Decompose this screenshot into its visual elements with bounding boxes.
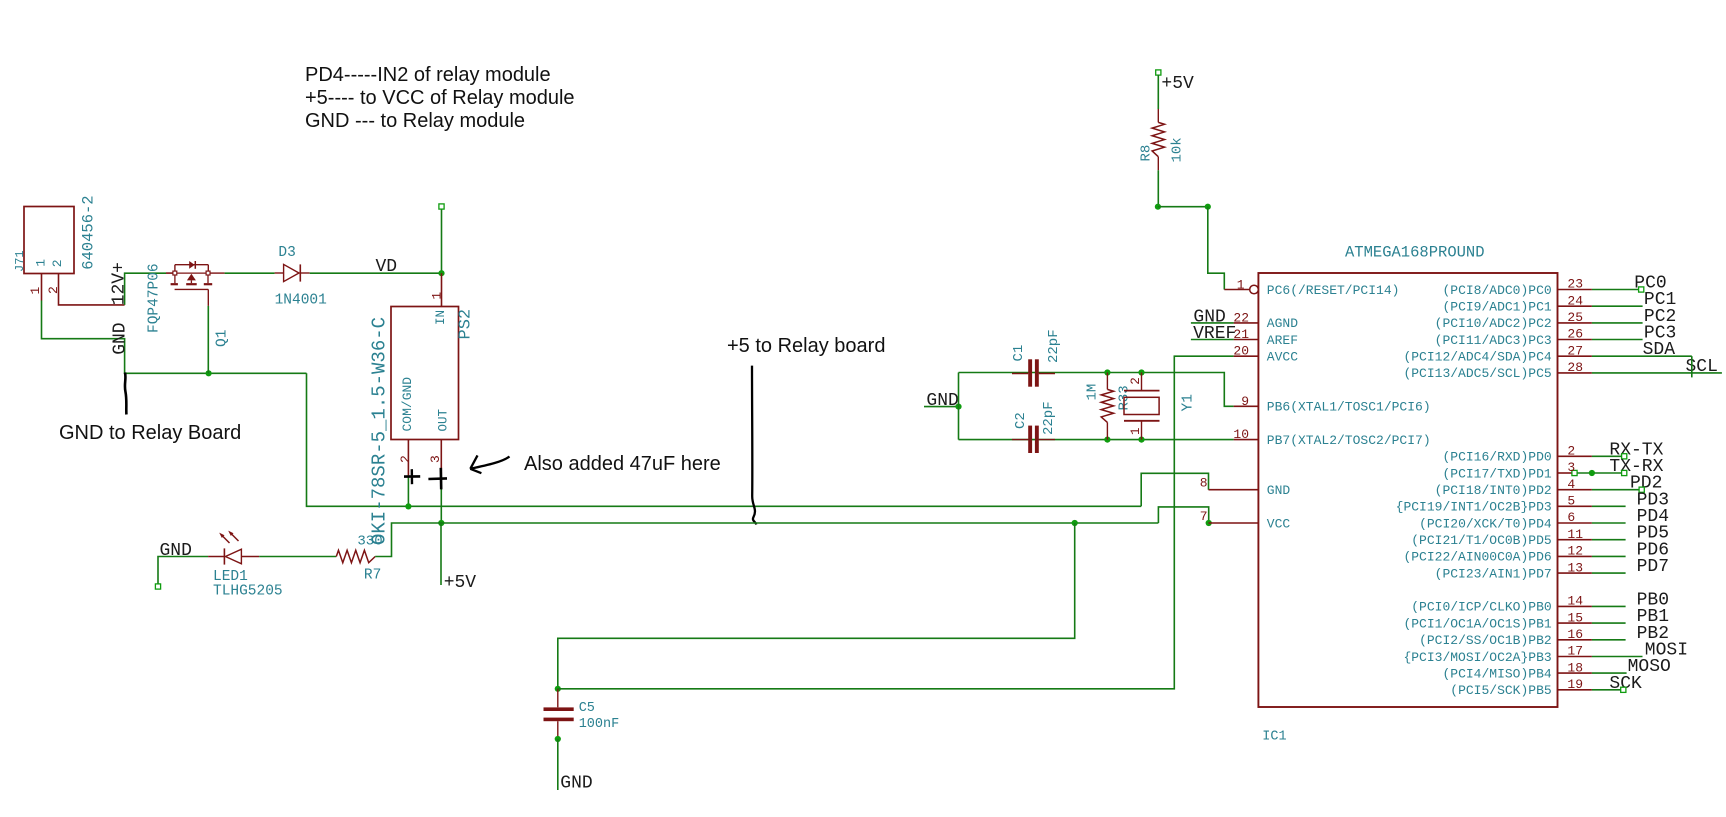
pin number 1 (PS2): [430, 292, 445, 300]
connector J71 pin 2 stub: [58, 274, 60, 301]
regulator PS2 pin 2 stub: [407, 440, 409, 476]
IC1 pin 3 TX-RX: [1442, 457, 1663, 481]
svg-text:13: 13: [1567, 560, 1583, 575]
wire VD stub up: [441, 209, 443, 273]
label VREF: [1193, 324, 1236, 344]
label PS2: [457, 309, 476, 340]
svg-text:IN: IN: [434, 310, 448, 325]
note GND to Relay Board: [59, 422, 241, 445]
node junction Y1 top: [1138, 369, 1144, 375]
svg-text:VREF: VREF: [1193, 324, 1236, 344]
terminal square GND LED: [155, 584, 160, 589]
svg-text:12: 12: [1567, 544, 1583, 559]
resistor R7: [336, 550, 375, 562]
svg-text:SCL: SCL: [1686, 357, 1718, 377]
IC1 pin 22 AGND: [1233, 310, 1298, 331]
node junction Q1 gate / GND wire: [206, 370, 212, 376]
label TLHG5205: [213, 584, 283, 600]
node junction below R8: [1155, 204, 1161, 210]
IC1 pin 12 PD6: [1403, 540, 1669, 564]
svg-text:20: 20: [1233, 344, 1249, 359]
label R8: [1139, 145, 1155, 162]
label GND (bottom): [560, 773, 592, 793]
svg-text:(PCI9/ADC1)PC1: (PCI9/ADC1)PC1: [1442, 300, 1551, 315]
svg-text:(PCI13/ADC5/SCL)PC5: (PCI13/ADC5/SCL)PC5: [1403, 366, 1551, 381]
svg-text:10: 10: [1233, 427, 1249, 442]
svg-text:2: 2: [398, 455, 413, 463]
svg-text:100nF: 100nF: [579, 717, 620, 732]
regulator PS2 body: [391, 307, 459, 440]
svg-text:R7: R7: [364, 567, 381, 583]
svg-text:C5: C5: [579, 701, 595, 716]
wire GND stub at LED: [158, 557, 208, 585]
IC1 pin 13 PD7: [1435, 557, 1669, 581]
pin name OUT: [437, 408, 451, 431]
label GND (crystal): [926, 391, 958, 411]
label LED1: [213, 569, 248, 585]
wire Q1 gate to GND junction: [207, 306, 209, 373]
svg-text:COM/GND: COM/GND: [400, 377, 415, 432]
wire GND rail jog to pin 8: [1141, 473, 1208, 506]
wire +5V label stub: [440, 523, 442, 585]
svg-text:PB6(XTAL1/TOSC1/PCI6): PB6(XTAL1/TOSC1/PCI6): [1267, 400, 1431, 415]
terminal square +5V top: [1156, 70, 1161, 75]
svg-text:23: 23: [1567, 277, 1583, 292]
node junction VD / PS2 IN: [438, 270, 444, 276]
svg-text:D3: D3: [278, 245, 295, 261]
label 330: [357, 533, 382, 549]
label D3: [278, 245, 295, 261]
IC1 pin 21 AREF: [1233, 327, 1298, 348]
crystal Y1: [1124, 373, 1160, 440]
pin number 2 (Y1): [1129, 377, 1143, 385]
svg-text:AREF: AREF: [1267, 333, 1298, 348]
transistor Q1 (P-MOSFET): [166, 261, 225, 306]
svg-text:(PCI10/ADC2)PC2: (PCI10/ADC2)PC2: [1435, 316, 1552, 331]
wire XTAL1 top rail: [959, 373, 1234, 407]
svg-text:6: 6: [1567, 510, 1575, 525]
svg-text:GND: GND: [926, 391, 958, 411]
pin name 2 (J71): [50, 259, 65, 267]
label Y1: [1181, 394, 1197, 411]
svg-text:GND: GND: [1267, 483, 1291, 498]
svg-text:Y1: Y1: [1181, 394, 1197, 411]
svg-text:C1: C1: [1011, 345, 1027, 362]
svg-text:IC1: IC1: [1262, 730, 1286, 745]
IC1 pin 17 MOSI: [1403, 641, 1688, 665]
wire +5V rail to C5 loop: [558, 523, 1075, 689]
svg-text:330: 330: [357, 533, 382, 549]
IC1 pin 11 PD5: [1411, 524, 1669, 548]
label C2: [1013, 412, 1029, 429]
svg-text:3: 3: [1567, 460, 1575, 475]
annotation hand-drawn 47uF capacitor marks: [404, 468, 447, 490]
wire 12V+ from J71 pin 2: [59, 273, 167, 305]
svg-text:R8: R8: [1139, 145, 1155, 162]
svg-text:J71: J71: [13, 250, 27, 272]
svg-text:OKI-78SR-5_1.5-W36-C: OKI-78SR-5_1.5-W36-C: [369, 317, 391, 545]
svg-text:(PCI4/MISO)PB4: (PCI4/MISO)PB4: [1442, 666, 1551, 681]
svg-text:3: 3: [428, 455, 443, 463]
svg-text:8: 8: [1200, 476, 1208, 491]
svg-text:PB7(XTAL2/TOSC2/PCI7): PB7(XTAL2/TOSC2/PCI7): [1267, 433, 1431, 448]
svg-text:25: 25: [1567, 310, 1583, 325]
svg-text:1: 1: [34, 259, 49, 267]
svg-text:(PCI12/ADC4/SDA)PC4: (PCI12/ADC4/SDA)PC4: [1403, 350, 1551, 365]
resistor R8: [1152, 109, 1164, 170]
annotation hand-drawn arrow: [470, 455, 509, 473]
svg-text:10k: 10k: [1170, 137, 1186, 162]
svg-text:16: 16: [1567, 627, 1583, 642]
note Also added 47uF here: [524, 453, 721, 476]
pin name IN: [434, 310, 448, 325]
svg-text:22pF: 22pF: [1046, 329, 1062, 363]
annotation hand-drawn +5 pointer line: [752, 366, 756, 525]
svg-text:640456-2: 640456-2: [80, 195, 98, 269]
label IC1: [1262, 730, 1286, 745]
svg-text:(PCI22/AIN00C0A)PD6: (PCI22/AIN00C0A)PD6: [1403, 550, 1551, 565]
node junction reset corner: [1205, 204, 1211, 210]
IC1 pin 24 PC1: [1442, 290, 1676, 314]
wire PS2 pin 3 to +5V rail: [440, 475, 442, 523]
IC1 pin 1 PC6/RESET: [1224, 278, 1399, 298]
wire reset to pin 1: [1208, 207, 1225, 290]
IC1 pin 15 PB1: [1403, 607, 1669, 631]
svg-text:PS2: PS2: [457, 309, 476, 340]
node junction C5 top: [555, 686, 561, 692]
IC1 pin 19 SCK: [1450, 674, 1642, 698]
svg-text:VCC: VCC: [1267, 516, 1291, 531]
resistor R33: [1101, 373, 1113, 440]
svg-text:1: 1: [1129, 427, 1143, 435]
annotation hand-drawn GND squiggle: [125, 373, 126, 415]
label ATMEGA168PROUND: [1345, 244, 1485, 262]
svg-text:1: 1: [430, 292, 445, 300]
svg-text:+5V: +5V: [1161, 74, 1194, 94]
svg-text:TLHG5205: TLHG5205: [213, 584, 283, 600]
node junction PS2 OUT on +5V rail: [438, 520, 444, 526]
wire C5 to GND: [557, 739, 559, 790]
label 12V+: [110, 262, 130, 305]
svg-text:AVCC: AVCC: [1267, 350, 1298, 365]
svg-text:(PCI17/TXD)PD1: (PCI17/TXD)PD1: [1442, 466, 1551, 481]
pin number 1 (J71): [28, 287, 43, 295]
label J71: [13, 250, 27, 272]
label R7: [364, 567, 381, 583]
regulator PS2 pin 3 stub: [440, 440, 442, 476]
svg-text:9: 9: [1241, 394, 1249, 409]
svg-text:ATMEGA168PROUND: ATMEGA168PROUND: [1345, 244, 1485, 262]
svg-text:12V+: 12V+: [110, 262, 130, 305]
svg-text:17: 17: [1567, 644, 1583, 659]
svg-text:VD: VD: [376, 257, 398, 277]
svg-text:(PCI2/SS/OC1B)PB2: (PCI2/SS/OC1B)PB2: [1419, 633, 1552, 648]
label GND (pin22): [1193, 307, 1225, 327]
pin name COM/GND: [400, 377, 415, 432]
svg-text:Q1: Q1: [215, 330, 231, 347]
svg-text:1N4001: 1N4001: [275, 292, 327, 308]
node junction Y1 bottom: [1138, 437, 1144, 443]
svg-text:19: 19: [1567, 677, 1583, 692]
label C1: [1011, 345, 1027, 362]
svg-text:1: 1: [28, 287, 43, 295]
label 1M: [1085, 384, 1101, 401]
wire GND from J71 pin 1: [42, 301, 307, 374]
pin number 2 (J71): [46, 286, 61, 294]
svg-text:(PCI11/ADC3)PC3: (PCI11/ADC3)PC3: [1435, 333, 1552, 348]
wire crystal left leg: [958, 373, 960, 440]
svg-text:27: 27: [1567, 343, 1583, 358]
wire AVCC net: [558, 356, 1234, 689]
label 10k: [1170, 137, 1186, 162]
svg-text:28: 28: [1567, 360, 1583, 375]
label R33: [1117, 385, 1133, 410]
node junction C5 bottom: [555, 736, 561, 742]
svg-text:GND: GND: [560, 773, 592, 793]
svg-text:LED1: LED1: [213, 569, 248, 585]
wire VD net: [310, 272, 442, 274]
IC1 pin 9 PB6: [1234, 394, 1431, 415]
IC1 pin 28 SCL: [1403, 357, 1721, 381]
node junction PS2 COM on GND rail: [405, 503, 411, 509]
label Q1: [215, 330, 231, 347]
IC1 pin 20 AVCC: [1233, 344, 1298, 365]
svg-text:2: 2: [1129, 377, 1143, 385]
svg-text:(PCI20/XCK/T0)PD4: (PCI20/XCK/T0)PD4: [1419, 516, 1552, 531]
wire SDA corner: [1691, 356, 1693, 377]
svg-text:15: 15: [1567, 610, 1583, 625]
IC1 pin 14 PB0: [1411, 590, 1669, 614]
capacitor C2: [1012, 426, 1055, 453]
IC1 pin 5 PD3: [1396, 490, 1669, 514]
IC1 pin 4 PD2: [1435, 474, 1663, 498]
svg-text:SDA: SDA: [1643, 340, 1676, 360]
svg-text:FQP47P06: FQP47P06: [147, 263, 163, 333]
svg-text:14: 14: [1567, 594, 1583, 609]
svg-text:2: 2: [50, 259, 65, 267]
IC1 pin 18 MOSO: [1442, 657, 1670, 681]
svg-text:{PCI19/INT1/OC2B}PD3: {PCI19/INT1/OC2B}PD3: [1396, 500, 1552, 515]
wire XTAL2 bottom rail: [959, 439, 1234, 441]
capacitor C1: [1012, 359, 1055, 386]
wire GND stub at crystal: [924, 406, 959, 408]
IC1 pin 6 PD4: [1419, 507, 1669, 531]
wire reset node across: [1158, 206, 1208, 208]
IC1 pin 26 PC3: [1435, 324, 1677, 348]
svg-text:OUT: OUT: [437, 408, 451, 431]
capacitor C5: [544, 689, 574, 739]
svg-text:4: 4: [1567, 477, 1575, 492]
svg-text:(PCI1/OC1A/OC1S)PB1: (PCI1/OC1A/OC1S)PB1: [1403, 616, 1551, 631]
wire PS2 pin 2 to GND rail: [407, 475, 409, 506]
label GND (LED): [160, 541, 192, 561]
label +5V (top): [1161, 74, 1194, 94]
regulator PS2 pin 1 stub: [441, 273, 443, 306]
wire R8 to reset node: [1157, 170, 1159, 206]
connector J71 pin 1 stub: [41, 274, 43, 301]
svg-text:2: 2: [1567, 444, 1575, 459]
wire GND label pin 22: [1191, 322, 1234, 324]
svg-text:1: 1: [1237, 278, 1245, 293]
pin name 1 (J71): [34, 259, 49, 267]
wire VREF label pin 21: [1191, 339, 1234, 341]
node junction +5V rail / C5 branch: [1072, 520, 1078, 526]
svg-text:GND: GND: [111, 322, 131, 354]
svg-text:(PCI18/INT0)PD2: (PCI18/INT0)PD2: [1435, 483, 1552, 498]
svg-text:AGND: AGND: [1267, 316, 1298, 331]
label VD: [376, 257, 398, 277]
label GND (rotated, near 12V input): [111, 322, 131, 354]
diode D3: [275, 264, 310, 281]
svg-text:{PCI3/MOSI/OC2A}PB3: {PCI3/MOSI/OC2A}PB3: [1403, 650, 1551, 665]
label 1N4001: [275, 292, 327, 308]
svg-text:C2: C2: [1013, 412, 1029, 429]
label 100nF: [579, 717, 620, 732]
IC1 pin 23 PC0: [1442, 274, 1666, 298]
node junction R33 bottom: [1104, 437, 1110, 443]
svg-text:+5V: +5V: [444, 573, 477, 593]
wire LED to R7: [259, 556, 336, 558]
terminal square VD top: [439, 204, 444, 209]
svg-text:(PCI8/ADC0)PC0: (PCI8/ADC0)PC0: [1442, 283, 1551, 298]
svg-text:24: 24: [1567, 293, 1583, 308]
IC1 pin 16 PB2: [1419, 624, 1669, 648]
svg-text:7: 7: [1200, 509, 1208, 524]
svg-text:PD7: PD7: [1637, 557, 1669, 577]
label +5V (mid): [444, 573, 477, 593]
svg-text:18: 18: [1567, 660, 1583, 675]
label 22pF (C2): [1041, 401, 1057, 435]
note +5 to Relay board: [727, 335, 885, 358]
IC1 pin 27 SDA: [1403, 340, 1691, 364]
connector J71 body: [24, 207, 74, 274]
svg-text:(PCI21/T1/OC0B)PD5: (PCI21/T1/OC0B)PD5: [1411, 533, 1551, 548]
svg-text:26: 26: [1567, 327, 1583, 342]
wire R7 to +5V rail: [375, 523, 1158, 557]
note relay wiring annotation: [305, 64, 575, 133]
node junction VCC at pin 7: [1206, 520, 1212, 526]
label 22pF (C1): [1046, 329, 1062, 363]
svg-text:2: 2: [46, 286, 61, 294]
IC1 pin 8 GND: [1200, 476, 1291, 498]
pin number 1 (Y1): [1129, 427, 1143, 435]
label C5: [579, 701, 595, 716]
svg-text:11: 11: [1567, 527, 1583, 542]
svg-text:PC6(/RESET/PCI14): PC6(/RESET/PCI14): [1267, 283, 1400, 298]
pin number 3 (PS2): [428, 455, 443, 463]
svg-text:(PCI16/RXD)PD0: (PCI16/RXD)PD0: [1442, 450, 1551, 465]
IC1 pin 25 PC2: [1435, 307, 1677, 331]
wire VCC jog to pin 7: [1158, 507, 1208, 523]
LED LED1: [208, 531, 259, 565]
IC1 pin 7 VCC: [1200, 509, 1291, 531]
node junction R33 top: [1104, 369, 1110, 375]
IC1 pin 10 PB7: [1233, 427, 1430, 448]
wire +5V to R8: [1157, 75, 1159, 109]
svg-text:5: 5: [1567, 494, 1575, 509]
IC1 pin 2 RX-TX: [1442, 440, 1663, 464]
svg-text:(PCI0/ICP/CLKO)PB0: (PCI0/ICP/CLKO)PB0: [1411, 600, 1551, 615]
label OKI-78SR-5_1.5-W36-C: [369, 317, 391, 545]
wire GND down to ground rail: [307, 373, 1142, 506]
node junction GND crystal leg: [955, 404, 961, 410]
svg-text:(PCI5/SCK)PB5: (PCI5/SCK)PB5: [1450, 683, 1551, 698]
svg-text:(PCI23/AIN1)PD7: (PCI23/AIN1)PD7: [1435, 566, 1552, 581]
IC U1 ATMEGA168 body: [1258, 273, 1557, 707]
wire Q1 drain to D3: [225, 272, 275, 274]
label 640456-2: [80, 195, 98, 269]
pin number 2 (PS2): [398, 455, 413, 463]
svg-text:1M: 1M: [1085, 384, 1101, 401]
svg-text:GND: GND: [160, 541, 192, 561]
label FQP47P06: [147, 263, 163, 333]
svg-text:22pF: 22pF: [1041, 401, 1057, 435]
